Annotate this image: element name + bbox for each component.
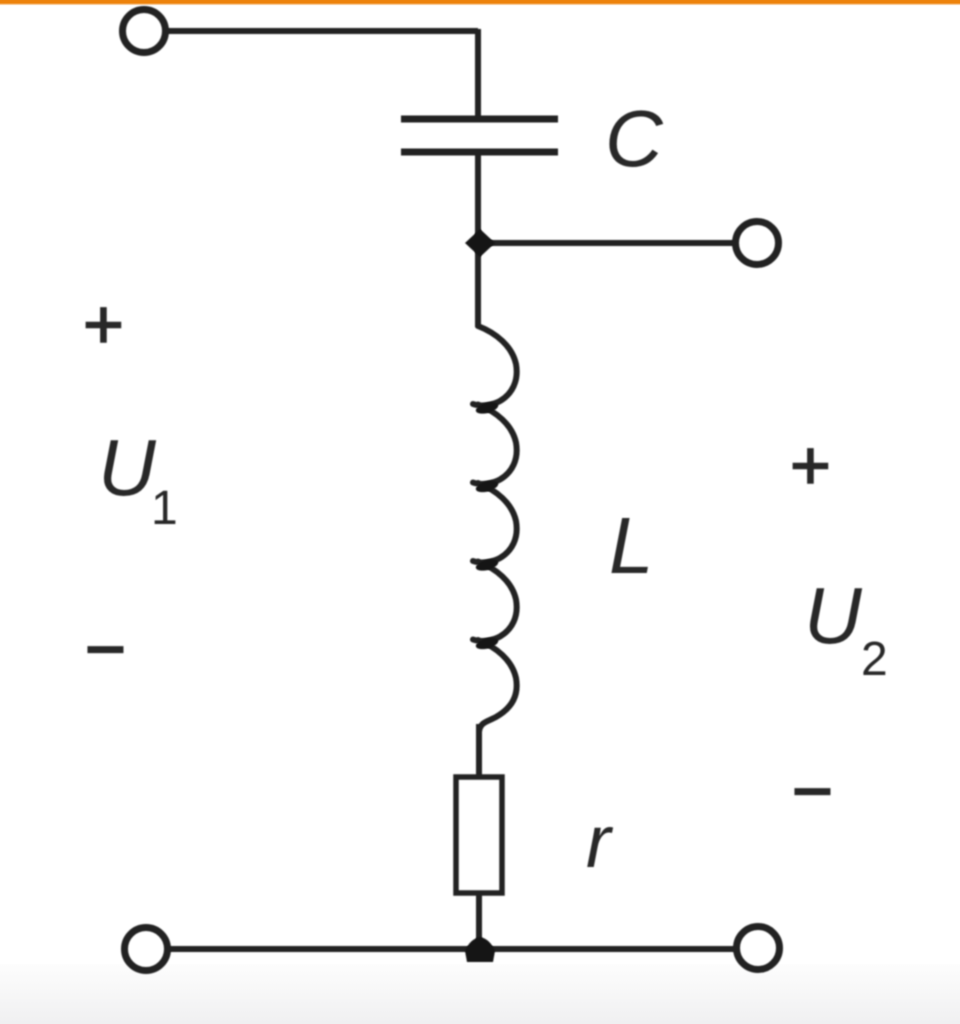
inductor crossing 3 bbox=[475, 557, 500, 573]
bottom wire bbox=[167, 946, 737, 952]
resistor r body bbox=[456, 777, 502, 893]
inductor L turn 3 bbox=[473, 483, 517, 562]
inductor L turn 5 bbox=[478, 640, 517, 732]
footer gray strip bbox=[0, 964, 960, 1024]
inductor crossing 2 bbox=[475, 479, 500, 495]
inductor L turn 4 bbox=[473, 562, 517, 641]
svg-text:L: L bbox=[609, 501, 654, 590]
wire from top to capacitor bbox=[475, 29, 481, 119]
wire top horizontal bbox=[166, 28, 478, 34]
capacitor C bottom plate bbox=[401, 149, 558, 156]
terminal bottom-left bbox=[125, 928, 168, 971]
svg-text:1: 1 bbox=[151, 482, 178, 535]
terminal bottom-right bbox=[737, 927, 780, 970]
terminal top-left bbox=[123, 10, 166, 53]
svg-text:+: + bbox=[83, 285, 124, 363]
orange header bar bbox=[0, 0, 960, 6]
node A junction dot bbox=[465, 229, 495, 257]
wire inductor to resistor bbox=[476, 724, 482, 777]
svg-text:r: r bbox=[586, 800, 614, 883]
node B junction dot bbox=[465, 937, 495, 962]
svg-text:−: − bbox=[85, 610, 126, 688]
svg-text:C: C bbox=[605, 94, 664, 183]
svg-text:U: U bbox=[804, 571, 863, 660]
inductor crossing 1 bbox=[475, 400, 500, 416]
inductor L turn 2 bbox=[473, 405, 517, 484]
svg-text:2: 2 bbox=[861, 633, 888, 686]
wire node A to right terminal bbox=[478, 240, 737, 246]
wire capacitor to node A bbox=[475, 152, 481, 243]
svg-text:+: + bbox=[790, 426, 831, 504]
svg-text:−: − bbox=[792, 752, 833, 830]
inductor crossing 4 bbox=[475, 636, 500, 652]
svg-text:U: U bbox=[98, 423, 157, 512]
terminal top-right bbox=[736, 222, 779, 265]
wire node A to inductor bbox=[475, 243, 481, 327]
wire resistor to node B bbox=[476, 893, 482, 949]
inductor L turn 1 bbox=[473, 326, 517, 405]
capacitor C top plate bbox=[401, 116, 558, 123]
